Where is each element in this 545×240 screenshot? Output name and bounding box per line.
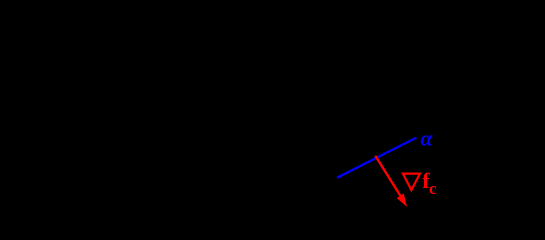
svg-text:α: α bbox=[420, 125, 433, 150]
svg-text:c: c bbox=[429, 179, 437, 198]
